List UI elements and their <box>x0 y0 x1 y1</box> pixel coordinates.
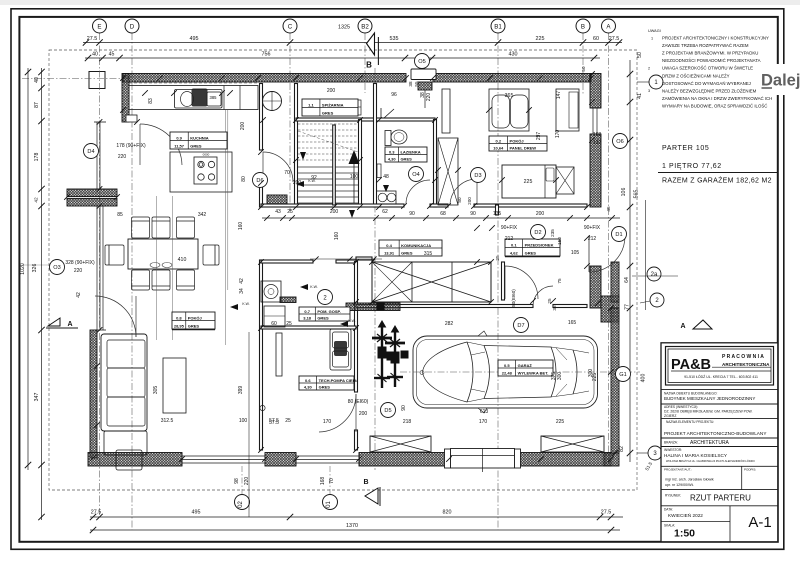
coffee table <box>163 358 186 413</box>
section marker A left <box>46 318 78 328</box>
svg-text:82: 82 <box>619 446 625 452</box>
svg-text:27.5: 27.5 <box>601 510 612 516</box>
svg-text:1 PIĘTRO 77,62: 1 PIĘTRO 77,62 <box>662 163 722 170</box>
svg-text:POKÓJ: POKÓJ <box>188 315 202 320</box>
kitchen door arc D6 <box>263 152 293 182</box>
wall lamp circle <box>263 92 282 111</box>
svg-text:A: A <box>67 321 72 328</box>
svg-text:11,57: 11,57 <box>174 143 185 148</box>
svg-text:50: 50 <box>637 52 643 58</box>
svg-text:160: 160 <box>334 232 340 241</box>
room label tech <box>299 376 358 390</box>
top dimension chain 2 <box>85 57 600 59</box>
svg-text:NIEZGODNOŚCI POWIADOMIĆ PROJEK: NIEZGODNOŚCI POWIADOMIĆ PROJEKTANATA <box>662 58 761 63</box>
svg-text:O6: O6 <box>616 139 623 145</box>
svg-text:27.5: 27.5 <box>609 36 620 42</box>
svg-text:40: 40 <box>34 77 40 83</box>
svg-text:0.5: 0.5 <box>504 363 510 368</box>
svg-text:3,18: 3,18 <box>303 315 312 320</box>
svg-text:100: 100 <box>350 174 359 180</box>
svg-text:K.W.: K.W. <box>348 319 355 323</box>
svg-text:PROJEKTANT/AUT.:: PROJEKTANT/AUT.: <box>664 468 692 472</box>
svg-text:80(EI60): 80(EI60) <box>511 289 516 307</box>
tech door D5 arc <box>319 394 356 432</box>
svg-text:ZAMÓWIENIA NA OKNA I DRZW ZWER: ZAMÓWIENIA NA OKNA I DRZW ZWERYFIKOWAĆ I… <box>662 96 772 101</box>
section marker B top <box>366 33 378 470</box>
washing machine <box>261 281 281 302</box>
svg-text:Dalej: Dalej <box>761 72 800 90</box>
staircase <box>298 124 360 205</box>
utility rooms left wall <box>260 260 263 450</box>
bottom dimension chain 2 <box>90 529 620 531</box>
svg-text:212: 212 <box>588 236 597 242</box>
grid axes dash-dot lines <box>99 33 101 517</box>
svg-text:PA&B: PA&B <box>671 357 711 373</box>
wall tick slashes <box>120 75 126 81</box>
svg-text:399: 399 <box>238 386 244 395</box>
svg-text:WYLEWKA BET.: WYLEWKA BET. <box>518 370 549 375</box>
note circles <box>649 75 663 89</box>
svg-text:GRES: GRES <box>317 315 329 320</box>
svg-text:ADRES (INWESTYCJI):: ADRES (INWESTYCJI): <box>664 405 698 409</box>
svg-text:NALEŻY BEZWZGLĘDNIE PRZED ZŁOŻ: NALEŻY BEZWZGLĘDNIE PRZED ZŁOŻENIEM <box>662 88 757 93</box>
svg-text:DATA:: DATA: <box>664 508 673 512</box>
svg-text:D3: D3 <box>474 173 481 179</box>
svg-text:80: 80 <box>241 176 247 182</box>
garage axis line <box>400 371 640 373</box>
svg-text:A: A <box>680 323 685 330</box>
svg-text:147: 147 <box>556 91 562 100</box>
svg-text:38: 38 <box>408 81 413 87</box>
entry-garage EI60 door arc <box>505 266 538 299</box>
svg-text:41: 41 <box>637 93 643 99</box>
svg-text:90+FIX: 90+FIX <box>584 225 601 231</box>
svg-text:165: 165 <box>568 320 577 326</box>
svg-text:62: 62 <box>382 209 388 215</box>
svg-text:22,48: 22,48 <box>502 370 513 375</box>
svg-text:D: D <box>130 23 135 30</box>
svg-text:0.4: 0.4 <box>386 243 392 248</box>
svg-text:365: 365 <box>505 93 514 99</box>
svg-text:170: 170 <box>323 419 332 425</box>
svg-text:55: 55 <box>414 81 419 87</box>
svg-text:34: 34 <box>239 288 245 294</box>
entry west wall <box>502 262 505 300</box>
svg-text:TECH.POMPA CIEPŁ: TECH.POMPA CIEPŁ <box>319 378 359 383</box>
svg-text:ARCHITEKTURA: ARCHITEKTURA <box>690 440 730 446</box>
svg-text:0.1: 0.1 <box>511 242 517 247</box>
wall pier left <box>67 189 117 197</box>
svg-text:B: B <box>363 479 368 486</box>
svg-text:13,91: 13,91 <box>384 250 395 255</box>
utility top wall <box>261 260 313 263</box>
svg-text:RZUT PARTERU: RZUT PARTERU <box>690 494 751 503</box>
svg-text:25: 25 <box>286 321 292 327</box>
top dimension chain 1 <box>83 42 622 44</box>
svg-text:200: 200 <box>536 211 545 217</box>
svg-text:83: 83 <box>148 98 154 104</box>
svg-text:1,1: 1,1 <box>308 102 314 107</box>
svg-text:UWAGI: UWAGI <box>648 29 661 33</box>
svg-text:756: 756 <box>262 52 271 58</box>
svg-text:INWESTOR:: INWESTOR: <box>664 448 682 452</box>
small circle tech <box>260 405 265 410</box>
utility tall cabinet <box>264 306 285 327</box>
svg-text:27.5: 27.5 <box>87 36 98 42</box>
svg-text:POKÓJ: POKÓJ <box>510 138 524 143</box>
svg-text:2a: 2a <box>651 272 658 278</box>
svg-text:820: 820 <box>443 510 452 516</box>
svg-text:ŁAZIENKA: ŁAZIENKA <box>400 149 420 154</box>
dining table <box>128 239 198 269</box>
built-in wardrobe crossed box <box>372 262 491 302</box>
svg-text:2: 2 <box>648 67 650 71</box>
svg-text:ARCHITEKTONICZNA: ARCHITEKTONICZNA <box>722 362 770 367</box>
svg-text:132: 132 <box>593 140 602 146</box>
dim extension lines dining <box>156 196 158 340</box>
title block <box>661 343 778 542</box>
svg-text:70: 70 <box>284 170 290 176</box>
svg-text:01: 01 <box>326 501 332 508</box>
svg-text:27.5: 27.5 <box>91 510 102 516</box>
svg-text:45: 45 <box>109 52 115 58</box>
tech radiator <box>276 333 282 376</box>
column at axis E <box>89 72 105 89</box>
svg-text:178: 178 <box>34 153 40 162</box>
svg-text:200: 200 <box>467 197 472 205</box>
svg-text:B1: B1 <box>494 23 502 30</box>
kitchen island + cooktop <box>170 152 232 192</box>
svg-text:10,64: 10,64 <box>493 145 504 150</box>
svg-text:0.8: 0.8 <box>176 315 182 320</box>
svg-text:535: 535 <box>390 36 399 42</box>
svg-text:DZ. 262/8 OBRĘB MIKOŁAJEW, GM.: DZ. 262/8 OBRĘB MIKOŁAJEW, GM. PARZĘCZEW… <box>664 410 753 414</box>
svg-text:02: 02 <box>238 501 244 508</box>
window O6 right wall <box>592 108 594 134</box>
svg-text:50: 50 <box>581 66 586 72</box>
svg-text:60: 60 <box>271 321 277 327</box>
pantry shelf <box>352 100 361 115</box>
svg-text:410: 410 <box>178 257 187 263</box>
utility mid wall <box>261 326 356 329</box>
svg-text:B: B <box>581 23 585 30</box>
interior wall stairs left <box>295 84 298 208</box>
svg-text:80 (EI60): 80 (EI60) <box>348 399 369 405</box>
svg-text:D2: D2 <box>534 230 541 236</box>
svg-text:BUDYNEK MIESZKALNY JEDNORODZIN: BUDYNEK MIESZKALNY JEDNORODZINNY <box>664 396 755 401</box>
svg-text:G1: G1 <box>619 372 626 378</box>
dim line living right <box>248 332 250 517</box>
svg-text:312.5: 312.5 <box>161 418 174 424</box>
svg-text:PROJEKT ARCHITEKTONICZNY I KON: PROJEKT ARCHITEKTONICZNY I KONSTRUKCYJNY <box>662 36 769 41</box>
svg-text:E: E <box>97 23 101 30</box>
svg-text:328 (90+FIX): 328 (90+FIX) <box>65 260 95 266</box>
kitchen counter top <box>129 86 258 110</box>
svg-text:0.3: 0.3 <box>389 149 395 154</box>
svg-text:O4: O4 <box>412 172 419 178</box>
svg-text:DOSTOSOWAĆ DO WYMAGAŃ WYBRANEJ: DOSTOSOWAĆ DO WYMAGAŃ WYBRANEJ <box>662 81 751 86</box>
svg-text:D4: D4 <box>87 149 94 155</box>
svg-text:POM. GOSP.: POM. GOSP. <box>317 309 341 314</box>
svg-text:80: 80 <box>457 197 462 203</box>
svg-text:100: 100 <box>239 418 248 424</box>
svg-text:1370: 1370 <box>346 523 358 529</box>
svg-text:42: 42 <box>34 197 40 203</box>
svg-text:45: 45 <box>606 206 611 212</box>
room label bathroom <box>385 147 427 162</box>
svg-text:178 (90+FIX): 178 (90+FIX) <box>116 143 146 149</box>
exterior wall living left <box>90 330 97 458</box>
garage top wall <box>356 305 533 308</box>
svg-text:347: 347 <box>34 393 40 402</box>
svg-text:25: 25 <box>495 255 500 261</box>
designator bubbles <box>84 144 99 159</box>
svg-text:64: 64 <box>624 277 630 283</box>
room label utility <box>299 307 350 321</box>
svg-text:upr. nr 129/00/WŁ: upr. nr 129/00/WŁ <box>665 483 694 487</box>
bedside table <box>556 167 574 194</box>
window O3 left wall <box>96 206 98 330</box>
left dimension chain <box>41 68 43 520</box>
svg-text:28,95: 28,95 <box>174 323 185 328</box>
vent circle <box>318 290 333 305</box>
svg-text:1:50: 1:50 <box>674 528 695 540</box>
utility/garage wall <box>355 262 358 393</box>
svg-text:68: 68 <box>440 211 446 217</box>
right dimension chain <box>629 60 631 462</box>
living room door arc <box>95 296 136 337</box>
svg-text:200: 200 <box>327 88 336 94</box>
bedroom wardrobe <box>489 89 529 131</box>
svg-text:WYMIARY NA BUDOWIE, ORAZ SPRA: WYMIARY NA BUDOWIE, ORAZ SPRAWDZIĆ ILOŚĆ <box>662 103 767 108</box>
exterior wall right upper <box>590 74 601 109</box>
corridor top wall <box>261 204 404 207</box>
svg-text:GRES: GRES <box>190 143 202 148</box>
svg-text:ZGIERZ: ZGIERZ <box>664 414 676 418</box>
svg-text:UWAGA SZEROKOŚĆ OTWORU W ŚWIET: UWAGA SZEROKOŚĆ OTWORU W ŚWIETLE <box>662 66 753 71</box>
svg-text:GARAŻ: GARAŻ <box>518 363 533 368</box>
garage pillar X boxes bottom <box>370 436 431 452</box>
svg-text:220: 220 <box>244 477 250 486</box>
interior wall stairs right <box>359 120 362 208</box>
svg-text:GRES: GRES <box>319 384 331 389</box>
Dalej overlay <box>756 64 800 95</box>
svg-text:NAZWA ELEMENTU PROJEKTU:: NAZWA ELEMENTU PROJEKTU: <box>666 420 714 424</box>
svg-text:PANEL DREW: PANEL DREW <box>510 145 537 150</box>
room label entry <box>505 239 560 256</box>
svg-text:K.W.: K.W. <box>310 285 318 289</box>
svg-text:91-510 ŁÓDŹ UL. KRECIA 7 TEL..: 91-510 ŁÓDŹ UL. KRECIA 7 TEL.. 603 802 4… <box>684 374 758 379</box>
bed <box>502 165 556 198</box>
svg-text:297: 297 <box>536 132 542 141</box>
svg-text:35: 35 <box>552 305 557 311</box>
svg-text:0000: 0000 <box>203 153 210 157</box>
svg-text:225: 225 <box>536 36 545 42</box>
entry stub wall <box>496 205 499 215</box>
svg-text:P R A C O W N I A: P R A C O W N I A <box>722 354 764 360</box>
svg-text:PROJEKT ARCHITEKTONICZNO-BUDOW: PROJEKT ARCHITEKTONICZNO-BUDOWLANY <box>664 431 767 436</box>
washbasin <box>377 191 397 204</box>
svg-text:C: C <box>288 23 293 30</box>
bedroom door arc <box>450 179 477 205</box>
pantry bottom wall <box>296 118 435 121</box>
car top view <box>413 331 598 413</box>
garage gate opening <box>451 449 515 469</box>
svg-text:220: 220 <box>426 93 432 102</box>
svg-text:SPIŻARNIA: SPIŻARNIA <box>322 102 344 107</box>
svg-text:42: 42 <box>239 278 245 284</box>
svg-text:225: 225 <box>592 373 598 382</box>
svg-text:0.6: 0.6 <box>305 378 311 383</box>
room label garage <box>498 360 553 376</box>
svg-text:RYSUNEK:: RYSUNEK: <box>665 494 681 498</box>
room label bedroom <box>489 136 547 151</box>
svg-text:282: 282 <box>445 321 454 327</box>
svg-text:4,30: 4,30 <box>304 384 313 389</box>
svg-text:B2: B2 <box>361 23 369 30</box>
window O1 bottom <box>296 455 359 457</box>
bedroom desk <box>556 89 579 131</box>
tall cabinet <box>442 89 450 133</box>
svg-text:38: 38 <box>420 92 426 98</box>
svg-text:495: 495 <box>190 36 199 42</box>
svg-text:170: 170 <box>479 419 488 425</box>
svg-text:1: 1 <box>651 37 653 41</box>
svg-text:90+FIX: 90+FIX <box>501 225 518 231</box>
window D4 left wall <box>96 122 98 189</box>
svg-text:4,62: 4,62 <box>510 250 519 255</box>
svg-text:B: B <box>366 61 372 70</box>
front door D1 arc <box>589 236 625 272</box>
svg-text:170: 170 <box>555 130 561 139</box>
upper cabinets dashed <box>129 82 258 84</box>
svg-text:K.W.: K.W. <box>242 302 249 306</box>
svg-text:0.7: 0.7 <box>304 309 310 314</box>
svg-text:212: 212 <box>505 236 514 242</box>
window O2 bottom <box>182 455 265 457</box>
svg-text:DRZW Z OŚCIEŻNICAMI NALEŻY: DRZW Z OŚCIEŻNICAMI NALEŻY <box>662 73 730 78</box>
svg-text:168: 168 <box>593 132 602 138</box>
svg-text:96: 96 <box>391 92 397 98</box>
svg-text:D7: D7 <box>517 323 524 329</box>
svg-text:200: 200 <box>240 122 246 131</box>
sofa <box>101 334 147 431</box>
svg-text:43: 43 <box>275 209 281 215</box>
section marker A right <box>680 320 712 330</box>
svg-text:1020: 1020 <box>20 263 26 275</box>
bathroom right wall <box>434 120 437 208</box>
svg-text:HALINA I MARIA KOSIELSCY: HALINA I MARIA KOSIELSCY <box>664 453 728 458</box>
corridor dim line <box>262 217 620 219</box>
toilet <box>385 131 391 146</box>
svg-text:106: 106 <box>621 188 627 197</box>
svg-text:GRES: GRES <box>525 250 537 255</box>
svg-text:25: 25 <box>287 209 293 215</box>
exterior wall kitchen left <box>122 74 129 123</box>
tech double sink <box>330 329 351 370</box>
svg-text:90: 90 <box>470 211 476 217</box>
svg-text:O5: O5 <box>418 59 425 65</box>
svg-text:495: 495 <box>192 510 201 516</box>
svg-text:KOMUNIKACJA: KOMUNIKACJA <box>401 243 431 248</box>
svg-text:3: 3 <box>648 89 650 93</box>
svg-text:O3: O3 <box>53 265 60 271</box>
corridor bottom wall stub <box>356 257 372 260</box>
dashed plot boundary <box>49 50 637 490</box>
section marker B bottom <box>363 479 380 506</box>
svg-text:KUCHNIA: KUCHNIA <box>190 135 209 140</box>
kitchen door D4 arc <box>140 124 182 165</box>
svg-text:235: 235 <box>550 229 555 237</box>
kitchen faucet dark <box>192 89 208 107</box>
bathroom radiator <box>377 164 381 178</box>
svg-text:225: 225 <box>524 179 533 185</box>
left total dimension <box>27 68 29 470</box>
svg-text:160: 160 <box>238 222 244 231</box>
svg-text:NAZWA OBIEKTU BUDOWLANEGO:: NAZWA OBIEKTU BUDOWLANEGO: <box>664 391 717 395</box>
svg-text:150: 150 <box>557 237 562 245</box>
room label corridor <box>379 240 442 256</box>
svg-text:90: 90 <box>401 405 407 411</box>
svg-text:85: 85 <box>117 212 123 218</box>
svg-text:300: 300 <box>557 372 563 381</box>
garage right wall <box>611 262 619 302</box>
svg-text:400: 400 <box>641 374 647 383</box>
svg-text:GRES: GRES <box>322 110 334 115</box>
svg-text:168: 168 <box>320 477 326 486</box>
svg-text:25: 25 <box>285 418 291 424</box>
grid bubbles top <box>93 19 107 33</box>
room label living <box>172 312 215 329</box>
chimney box in top wall <box>411 69 436 80</box>
svg-text:98: 98 <box>234 478 240 484</box>
svg-text:D5: D5 <box>384 408 391 414</box>
bathroom door arc <box>406 180 430 204</box>
K.W. arrow <box>300 284 308 290</box>
svg-text:200: 200 <box>359 411 368 417</box>
svg-text:D1: D1 <box>615 232 622 238</box>
svg-text:385: 385 <box>210 95 218 100</box>
svg-text:87: 87 <box>34 102 40 108</box>
svg-text:220: 220 <box>74 268 83 274</box>
svg-text:305: 305 <box>153 386 159 395</box>
svg-text:75: 75 <box>557 278 562 284</box>
garage door from entry arc <box>533 286 553 306</box>
interior wall kitchen/hall <box>260 84 263 151</box>
svg-text:565: 565 <box>634 190 640 199</box>
exterior wall top <box>123 74 406 83</box>
svg-text:135: 135 <box>493 211 502 217</box>
svg-text:1325: 1325 <box>338 25 350 31</box>
svg-text:60: 60 <box>593 36 599 42</box>
shower corner symbol <box>380 108 382 120</box>
svg-text:48: 48 <box>383 174 389 180</box>
svg-text:218: 218 <box>403 419 412 425</box>
svg-text:220: 220 <box>118 154 127 160</box>
svg-text:225: 225 <box>556 419 565 425</box>
X wardrobe bedroom <box>438 138 458 205</box>
svg-text:70: 70 <box>329 478 335 484</box>
svg-text:326: 326 <box>32 264 38 273</box>
exterior wall bottom segments <box>88 453 182 467</box>
svg-text:613: 613 <box>480 409 489 415</box>
svg-text:GRES: GRES <box>188 323 200 328</box>
svg-text:GRES: GRES <box>400 156 412 161</box>
svg-text:PRZEDSIONEK: PRZEDSIONEK <box>525 242 554 247</box>
svg-text:0.2: 0.2 <box>495 138 501 143</box>
room label kitchen <box>170 132 227 149</box>
entry side wall right <box>590 266 601 308</box>
